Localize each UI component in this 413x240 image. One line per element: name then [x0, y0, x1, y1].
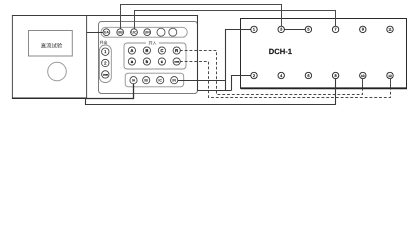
terminal 9: [360, 26, 366, 32]
svg-text:UC: UC: [131, 30, 137, 34]
terminal 6: [305, 72, 311, 78]
terminal IA: [130, 77, 137, 84]
svg-text:UA: UA: [104, 30, 110, 34]
terminal 3: [278, 26, 284, 32]
svg-text:IN: IN: [172, 79, 176, 83]
dashed wire COM to terminal 12: [180, 62, 391, 98]
spare voltage terminal 2: [169, 28, 177, 36]
terminal UA: [103, 29, 110, 36]
terminal 12: [387, 72, 393, 78]
dashed wire R to terminal 10: [180, 51, 363, 95]
svg-text:开出: 开出: [100, 40, 108, 45]
svg-text:8: 8: [335, 73, 337, 78]
binary input terminal COM: [173, 58, 180, 65]
svg-text:C: C: [160, 48, 163, 53]
stub terminal 12 to box edge: [390, 79, 392, 89]
terminal 5: [305, 26, 311, 32]
svg-text:6: 6: [307, 73, 309, 78]
svg-text:9: 9: [362, 27, 364, 32]
terminal IN: [171, 77, 178, 84]
svg-text:12: 12: [388, 74, 392, 78]
svg-text:7: 7: [335, 27, 337, 32]
binary input terminal a: [128, 58, 135, 65]
wire IN to riser: [178, 80, 226, 82]
wire riser to terminal 1: [226, 30, 252, 91]
knob: [48, 62, 67, 81]
svg-text:UN: UN: [145, 30, 151, 34]
开入 group box: [124, 43, 186, 69]
terminal IB: [143, 77, 150, 84]
svg-text:3: 3: [280, 27, 282, 32]
svg-text:B: B: [145, 48, 148, 53]
svg-text:IA: IA: [132, 79, 136, 83]
wire UC up and over to terminal 7: [135, 11, 336, 30]
svg-text:5: 5: [307, 27, 309, 32]
terminal 2: [251, 72, 257, 78]
svg-text:直流试验: 直流试验: [41, 43, 63, 50]
wire UB up and over to terminal 3: [121, 5, 282, 30]
wire riser to terminal 2: [232, 76, 252, 91]
binary input terminal R: [173, 47, 180, 54]
wire terminal 8 down left and up to source box: [86, 79, 336, 105]
DCH-1 thick bottom edge: [241, 87, 407, 89]
voltage strip: [101, 27, 187, 37]
terminal 1: [251, 26, 257, 32]
terminal 7: [332, 26, 338, 32]
svg-text:10: 10: [361, 74, 365, 78]
svg-text:开入: 开入: [149, 41, 157, 46]
link terminal 3 to terminal 5: [284, 29, 305, 31]
svg-text:R: R: [175, 48, 178, 53]
spare voltage terminal 1: [157, 28, 165, 36]
wire UA to source box: [87, 32, 104, 34]
svg-text:COM: COM: [174, 61, 179, 64]
binary input terminal b: [143, 58, 150, 65]
binary input terminal B: [143, 47, 150, 54]
terminal UB: [117, 29, 124, 36]
binary out terminal COM: [102, 71, 109, 78]
svg-text:COM: COM: [103, 73, 108, 76]
开入 label: [146, 41, 159, 45]
terminal 4: [278, 72, 284, 78]
svg-text:b: b: [146, 59, 149, 64]
svg-text:DCH-1: DCH-1: [269, 47, 293, 56]
current strip: [125, 73, 184, 87]
terminal 10: [360, 72, 366, 78]
binary input terminal A: [128, 47, 135, 54]
svg-text:11: 11: [388, 28, 392, 32]
svg-text:2: 2: [253, 73, 255, 78]
svg-text:IC: IC: [158, 79, 162, 83]
svg-text:UB: UB: [118, 30, 124, 34]
tester middle panel: [99, 22, 198, 94]
svg-text:A: A: [130, 48, 133, 53]
binary out terminal 2: [102, 59, 109, 66]
terminal UC: [131, 29, 138, 36]
DC source box thick bottom edge: [12, 97, 87, 99]
DC test source box: [12, 16, 86, 99]
binary input terminal C: [158, 47, 165, 54]
stub terminal 10 to box edge: [362, 79, 364, 89]
binary out terminal 1: [102, 48, 109, 55]
svg-text:1: 1: [253, 27, 255, 32]
wire top bus from DC source box top edge to panel right edge down to bottom rail: [12, 16, 231, 91]
DCH-1 relay terminal box: [241, 19, 407, 89]
开出 capsule: [99, 45, 111, 82]
wire IA down and left to source box: [86, 84, 134, 99]
terminal IC: [157, 77, 164, 84]
terminal 11: [387, 26, 393, 32]
terminal 8: [332, 72, 338, 78]
terminal UN: [144, 29, 151, 36]
DC source display screen: [29, 31, 73, 57]
svg-text:IB: IB: [144, 79, 148, 83]
binary input terminal c: [158, 58, 165, 65]
